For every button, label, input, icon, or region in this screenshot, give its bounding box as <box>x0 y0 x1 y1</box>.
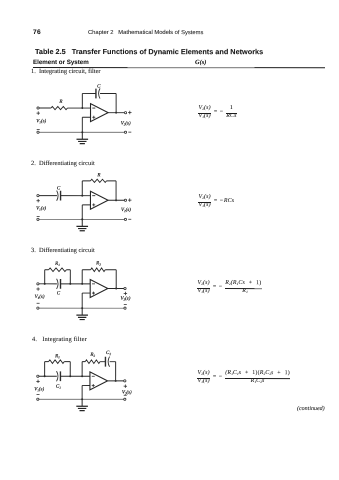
circuit 3: differentiating circuit with input R1 parallel C <box>35 260 131 319</box>
wire: feedback right vertical <box>115 181 117 200</box>
minus mark at output port bottom <box>128 218 131 220</box>
wire: input lead <box>39 375 45 377</box>
wire: bump left vertical <box>44 362 46 377</box>
transfer function G(s) row 3 <box>197 281 262 295</box>
plus mark at input port <box>36 380 39 383</box>
wire: non-inverting input <box>82 204 90 206</box>
node: inverting input junction <box>81 195 83 197</box>
resistor R <box>51 106 68 109</box>
wire: capacitor to inverting input <box>61 195 91 197</box>
wire: feedback top right <box>105 269 116 271</box>
column header: G(s) <box>195 59 206 66</box>
input terminal (circuit 4) <box>37 375 39 377</box>
node: ground junction <box>81 307 83 309</box>
node: inverting input junction <box>81 107 83 109</box>
wire: bottom rail <box>39 218 124 220</box>
capacitor C1 curved plate <box>57 371 58 381</box>
capacitor C2 curved plate <box>108 357 109 367</box>
wire: feedback left vertical <box>81 362 83 377</box>
circuit 4: integrating filter <box>34 350 132 411</box>
wire: feedback top left <box>82 269 90 271</box>
input terminal (circuit 3) <box>37 283 39 285</box>
table header rule <box>33 67 325 68</box>
capacitor C2 straight plate <box>104 357 106 367</box>
node: output junction <box>115 287 117 289</box>
wire: main line to capacitor C1 <box>45 375 57 377</box>
svg-text:V2(s): V2(s) <box>121 120 131 126</box>
wire: non-inverting input <box>82 384 90 386</box>
wire: output <box>108 112 124 114</box>
ground (circuit 3) <box>76 308 88 319</box>
plus mark at output port <box>128 111 131 114</box>
svg-text:C: C <box>57 290 61 296</box>
node: ground junction <box>81 218 83 220</box>
wire: feedback top left <box>82 180 90 182</box>
svg-text:V1(s): V1(s) <box>36 118 46 124</box>
wire: non-inverting down to rail <box>81 293 83 308</box>
node: output junction <box>115 112 117 114</box>
bottom left terminal (circuit 4) <box>37 398 39 400</box>
plus mark at input port <box>36 199 39 202</box>
wire: bump right vertical <box>69 270 71 284</box>
svg-text:R2​: R2​ <box>89 352 95 358</box>
wire: non-inverting input <box>82 292 90 294</box>
wire: bump top left lead <box>45 361 49 363</box>
svg-text:C2​: C2​ <box>106 350 111 356</box>
wire: bottom rail <box>39 307 124 309</box>
wire: feedback top left <box>82 361 85 363</box>
transfer function G(s) row 1 <box>198 106 237 120</box>
op-amp U3 <box>90 279 108 297</box>
wire: feedback right vertical <box>115 93 117 112</box>
minus mark at output port (above bottom terminal) <box>124 304 127 306</box>
wire: input lead <box>39 195 57 197</box>
node: output junction <box>115 199 117 201</box>
bottom right terminal (circuit 3) <box>124 307 126 309</box>
svg-text:V2(s): V2(s) <box>121 207 131 213</box>
node: bump right junction <box>69 375 71 377</box>
plus mark at input port <box>37 111 40 114</box>
capacitor C curved plate <box>99 88 100 98</box>
minus mark at input port bottom <box>37 302 40 304</box>
node: bump right junction <box>69 283 71 285</box>
minus mark at output port bottom <box>128 131 131 133</box>
minus mark at input port bottom <box>37 393 40 395</box>
wire: input lead <box>39 107 51 109</box>
node: bump left junction <box>44 283 46 285</box>
ground (circuit 1) <box>76 132 88 143</box>
minus mark at output port (above bottom terminal) <box>124 394 127 396</box>
wire: non-inverting down to rail <box>81 205 83 220</box>
wire: feedback left vertical <box>81 270 83 284</box>
wire: input lead <box>39 283 45 285</box>
wire: bump top left lead <box>45 269 49 271</box>
column header: Element or System <box>33 59 89 66</box>
row heading 1 <box>31 68 101 75</box>
svg-text:R1​: R1​ <box>54 353 60 359</box>
output terminal (circuit 3) <box>124 287 126 289</box>
page number 76 <box>33 29 41 36</box>
svg-text:R2​: R2​ <box>95 260 101 266</box>
output terminal (circuit 1) <box>124 112 126 114</box>
resistor R1 <box>49 360 65 364</box>
circuit 1: integrating circuit (op-amp integrator) <box>36 83 131 143</box>
capacitor C straight plate <box>59 279 61 289</box>
node: ground junction <box>81 131 83 133</box>
svg-text:V1(s): V1(s) <box>35 294 45 300</box>
svg-text:C1​: C1​ <box>56 384 61 390</box>
output terminal (circuit 2) <box>124 199 126 201</box>
capacitor C straight plate <box>60 191 62 201</box>
wire: feedback right vertical <box>115 362 117 381</box>
wire: feedback top left <box>82 92 96 94</box>
minus mark at input port bottom <box>37 216 40 218</box>
bottom right terminal (circuit 2) <box>124 218 126 220</box>
op-amp U2 <box>90 191 108 209</box>
plus mark at output port (below) <box>124 292 127 295</box>
wire: non-inverting down to rail <box>81 117 83 132</box>
row heading 3 <box>31 247 95 254</box>
node: bump left junction <box>44 375 46 377</box>
wire: bump right vertical <box>69 362 71 377</box>
node: output junction <box>115 380 117 382</box>
resistor R2 <box>91 268 106 272</box>
wire: feedback top right <box>100 92 116 94</box>
wire: output <box>108 380 124 382</box>
resistor R (feedback) <box>90 179 106 182</box>
svg-text:R: R <box>96 172 100 178</box>
circuit 2: differentiating circuit (op-amp differentiator) <box>36 172 131 230</box>
input terminal (circuit 1) <box>37 107 39 109</box>
bottom left terminal (circuit 3) <box>37 307 39 309</box>
wire: main line to capacitor <box>45 283 57 285</box>
row heading 4 <box>32 336 87 343</box>
plus mark at output port (below) <box>124 384 127 387</box>
wire: feedback right vertical <box>115 270 117 289</box>
continued note <box>296 406 324 412</box>
bottom right terminal (circuit 1) <box>124 131 126 133</box>
wire: capacitor to inverting input <box>60 375 89 377</box>
plus mark at input port <box>36 287 39 290</box>
svg-text:V1(s): V1(s) <box>34 386 44 392</box>
wire: R2 to C2 <box>100 361 105 363</box>
plus mark at output port <box>128 198 131 201</box>
svg-text:V2(s): V2(s) <box>120 296 130 302</box>
node: inverting input junction <box>81 375 83 377</box>
capacitor C curved plate <box>57 279 58 289</box>
node: inverting input junction <box>81 283 83 285</box>
capacitor C1 straight plate <box>59 371 61 381</box>
svg-text:V1(s): V1(s) <box>36 206 46 212</box>
wire: non-inverting down to rail <box>81 385 83 399</box>
wire: bottom rail <box>39 398 124 400</box>
minus mark at input port bottom <box>37 129 40 131</box>
wire: bottom rail <box>39 131 124 133</box>
wire: capacitor to inverting input <box>61 283 91 285</box>
svg-text:R: R <box>58 99 62 105</box>
wire: feedback left vertical <box>81 93 83 108</box>
wire: bump top right lead <box>66 269 70 271</box>
output terminal (circuit 4) <box>124 380 126 382</box>
bottom left terminal (circuit 1) <box>37 131 39 133</box>
ground (circuit 4) <box>76 399 88 410</box>
row heading 2 <box>31 160 95 167</box>
op-amp U4 <box>90 372 108 390</box>
wire: bump top right lead <box>64 361 70 363</box>
bottom left terminal (circuit 2) <box>37 218 39 220</box>
bottom right terminal (circuit 4) <box>124 398 126 400</box>
svg-text:C: C <box>97 83 101 89</box>
ground (circuit 2) <box>76 219 88 230</box>
svg-text:V2(s): V2(s) <box>122 389 132 395</box>
node: ground junction <box>81 398 83 400</box>
capacitor C straight plate <box>95 89 97 99</box>
wire: output <box>108 199 124 201</box>
transfer function G(s) row 4 <box>197 371 290 385</box>
svg-text:C: C <box>57 185 61 191</box>
capacitor C curved plate <box>57 191 58 201</box>
resistor R1 <box>49 268 67 272</box>
wire: feedback left vertical <box>81 181 83 196</box>
svg-text:R1​: R1​ <box>54 261 60 267</box>
wire: feedback top right <box>106 180 116 182</box>
input terminal (circuit 2) <box>37 195 39 197</box>
transfer function G(s) row 2 <box>198 195 234 209</box>
wire: bump left vertical <box>44 270 46 284</box>
running head: Chapter 2 Mathematical Models of Systems <box>88 30 203 36</box>
resistor R2 <box>85 360 100 364</box>
wire: non-inverting input <box>82 116 90 118</box>
wire: C2 to right vertical <box>110 361 116 363</box>
wire: resistor to inverting input <box>67 107 90 109</box>
table title <box>35 47 263 56</box>
op-amp U1 <box>91 104 109 122</box>
wire: output <box>108 287 124 289</box>
